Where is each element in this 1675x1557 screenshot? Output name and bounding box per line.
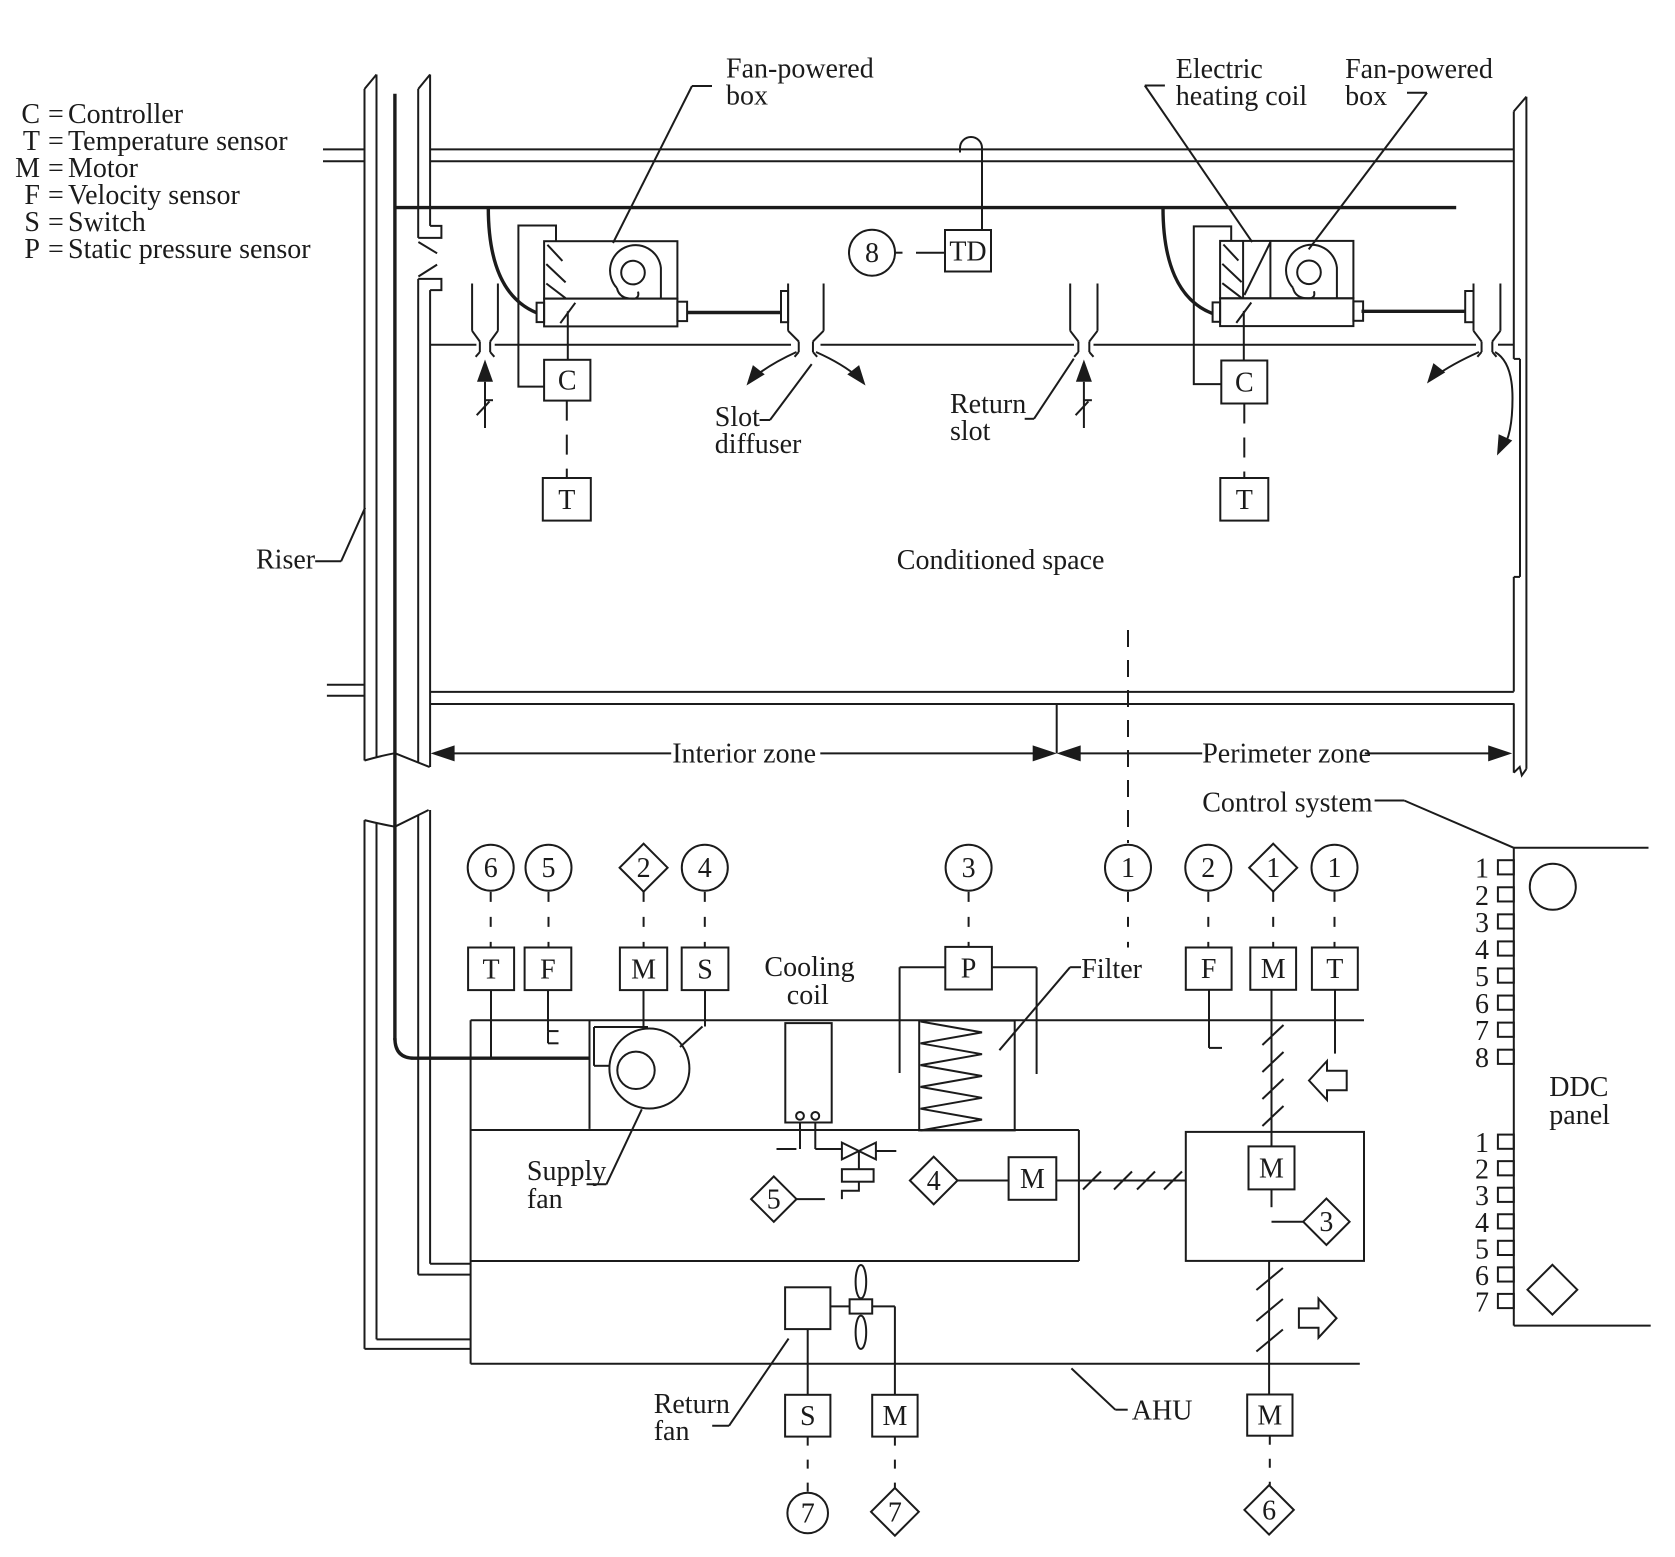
svg-text:7: 7: [801, 1499, 815, 1530]
svg-text:5: 5: [542, 853, 556, 884]
svg-text:Cooling: Cooling: [764, 952, 854, 983]
svg-text:Filter: Filter: [1081, 954, 1142, 985]
svg-text:M: M: [1261, 954, 1286, 985]
svg-text:M: M: [1020, 1164, 1045, 1195]
svg-text:C: C: [558, 366, 577, 397]
svg-text:3: 3: [1319, 1207, 1333, 1238]
svg-text:Interior zone: Interior zone: [672, 738, 816, 769]
svg-text:3: 3: [962, 853, 976, 884]
svg-text:M: M: [882, 1401, 907, 1432]
svg-text:coil: coil: [787, 980, 829, 1011]
svg-text:6: 6: [1262, 1495, 1276, 1526]
svg-text:8: 8: [1475, 1043, 1489, 1074]
svg-text:DDC: DDC: [1549, 1072, 1608, 1103]
svg-text:AHU: AHU: [1132, 1396, 1193, 1427]
svg-text:8: 8: [865, 238, 879, 269]
svg-text:T: T: [1326, 954, 1343, 985]
svg-text:=: =: [48, 234, 64, 265]
svg-text:F: F: [540, 954, 556, 985]
svg-text:Conditioned space: Conditioned space: [897, 545, 1105, 576]
svg-text:F: F: [1201, 954, 1217, 985]
svg-text:M: M: [631, 954, 656, 985]
svg-text:T: T: [483, 954, 500, 985]
svg-text:4: 4: [927, 1166, 941, 1197]
svg-text:Perimeter zone: Perimeter zone: [1202, 738, 1371, 769]
svg-text:box: box: [726, 81, 768, 112]
svg-text:1: 1: [1266, 853, 1280, 884]
svg-text:slot: slot: [950, 416, 991, 447]
svg-text:box: box: [1345, 81, 1387, 112]
svg-text:Riser: Riser: [256, 545, 316, 576]
svg-text:fan: fan: [527, 1184, 563, 1215]
svg-text:T: T: [1236, 485, 1253, 516]
svg-text:7: 7: [1475, 1287, 1489, 1318]
svg-text:4: 4: [698, 853, 712, 884]
svg-text:heating coil: heating coil: [1176, 81, 1308, 112]
svg-text:P: P: [961, 954, 977, 985]
svg-text:Control system: Control system: [1202, 788, 1373, 819]
svg-text:TD: TD: [949, 236, 986, 267]
svg-text:7: 7: [888, 1497, 902, 1528]
svg-text:1: 1: [1328, 853, 1342, 884]
svg-text:C: C: [1235, 368, 1254, 399]
svg-text:S: S: [800, 1401, 816, 1432]
svg-text:diffuser: diffuser: [715, 429, 802, 460]
svg-text:Supply: Supply: [527, 1156, 606, 1187]
svg-text:6: 6: [484, 853, 498, 884]
svg-text:M: M: [1257, 1401, 1282, 1432]
svg-text:2: 2: [1201, 853, 1215, 884]
svg-text:2: 2: [637, 853, 651, 884]
svg-text:M: M: [1259, 1153, 1284, 1184]
svg-text:P: P: [24, 234, 40, 265]
svg-text:T: T: [558, 485, 575, 516]
svg-text:1: 1: [1121, 853, 1135, 884]
svg-text:fan: fan: [654, 1416, 690, 1447]
svg-text:Static pressure sensor: Static pressure sensor: [68, 234, 311, 265]
svg-text:S: S: [697, 954, 713, 985]
svg-text:5: 5: [767, 1185, 781, 1216]
svg-text:panel: panel: [1549, 1100, 1610, 1131]
